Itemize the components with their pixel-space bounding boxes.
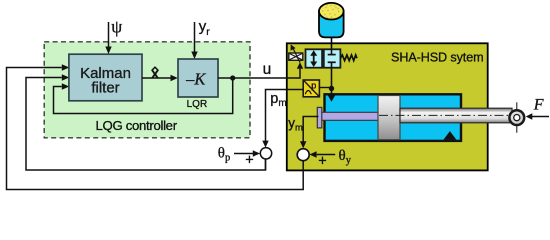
-K block (LQR) xyxy=(178,59,218,97)
u wire from -K to valve solenoid xyxy=(218,69,300,78)
u feedback arrowhead xyxy=(62,83,70,89)
valve blocked ports xyxy=(331,49,333,54)
left sensor rod xyxy=(321,112,379,120)
right summing junction xyxy=(297,149,309,161)
tank body xyxy=(319,11,344,37)
tank oil surface xyxy=(319,3,344,20)
pressure sensor xyxy=(303,80,319,97)
svg-text:–K: –K xyxy=(185,70,206,89)
svg-text:u: u xyxy=(263,61,272,78)
svg-text:LQR: LQR xyxy=(187,99,208,110)
junction dot on u line xyxy=(230,75,235,80)
bottom right port triangle xyxy=(443,131,456,140)
p_m wire sensor to left summing junction xyxy=(266,90,304,144)
left junction output xyxy=(265,159,267,170)
piston rod xyxy=(400,108,512,123)
left summing junction xyxy=(260,148,271,159)
supply line valve to cylinder xyxy=(331,68,333,94)
svg-text:+: + xyxy=(318,154,326,170)
F force arrow xyxy=(531,116,549,118)
theta_y input wire xyxy=(317,154,336,156)
LQG controller dashed box xyxy=(44,42,250,138)
middle feedback loop wire (p_m) xyxy=(26,78,266,171)
valve left square xyxy=(306,49,323,67)
cylinder body xyxy=(325,94,462,141)
psi input wire xyxy=(108,22,110,50)
rod end eye xyxy=(516,102,518,132)
piston xyxy=(378,96,400,140)
y_m wire from rod plate to right summing junction xyxy=(303,117,318,145)
outer loop arrowhead xyxy=(62,64,70,70)
valve spring xyxy=(340,55,357,61)
middle loop arrowhead xyxy=(62,74,70,80)
rod centerline xyxy=(379,114,527,116)
tank to valve line xyxy=(331,37,333,49)
svg-text:+: + xyxy=(245,153,253,169)
solenoid with proportional arrow xyxy=(289,53,303,60)
outer feedback loop wire (y_m) xyxy=(7,68,304,190)
valve double arrow xyxy=(313,55,315,64)
port arrow into cylinder xyxy=(327,95,335,102)
sensor tap wire to supply line xyxy=(319,87,331,89)
valve right square xyxy=(324,49,341,67)
x_hat wire Kalman to -K xyxy=(142,77,171,79)
theta_p input wire xyxy=(234,153,254,155)
svg-text:p: p xyxy=(311,81,316,91)
connector plate xyxy=(317,107,322,128)
svg-text:ψ: ψ xyxy=(111,17,122,37)
junction dot supply/sensor xyxy=(329,86,334,91)
svg-text:LQG controller: LQG controller xyxy=(96,118,178,133)
svg-text:filter: filter xyxy=(91,79,119,96)
svg-text:SHA-HSD sytem: SHA-HSD sytem xyxy=(391,50,483,64)
valve body underlay xyxy=(306,49,341,67)
Kalman filter block xyxy=(69,54,142,101)
u feedback wire xyxy=(54,80,233,114)
y_r input wire xyxy=(194,22,196,55)
svg-text:F: F xyxy=(533,97,544,114)
SHA-HSD system box xyxy=(287,43,488,170)
